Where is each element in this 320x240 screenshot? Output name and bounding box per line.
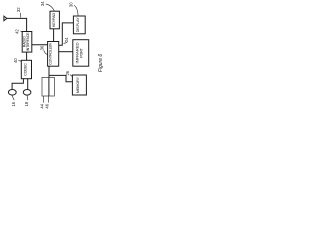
label 30 leader — [74, 5, 78, 15]
label 26 leader — [70, 75, 72, 77]
display box — [73, 16, 85, 34]
label 18 leader — [27, 95, 28, 100]
wire keypad to controller — [53, 29, 55, 42]
svg-text:40: 40 — [13, 58, 18, 63]
svg-text:36: 36 — [39, 45, 44, 50]
label 42 leader — [20, 30, 22, 33]
svg-text:DISPLAY: DISPLAY — [76, 16, 80, 32]
svg-text:34: 34 — [40, 1, 45, 6]
svg-text:32: 32 — [16, 7, 21, 12]
svg-text:Figure 6: Figure 6 — [98, 54, 104, 73]
microphone oval — [8, 90, 16, 96]
label 44 leader — [43, 96, 45, 103]
wire radio to controller — [32, 44, 48, 46]
svg-text:18: 18 — [24, 101, 29, 106]
memory box — [72, 75, 86, 95]
wire codec to microphone — [12, 79, 23, 90]
label 40 leader — [18, 60, 21, 62]
speaker oval — [23, 90, 31, 96]
label 46 leader — [47, 96, 49, 103]
wire branch to memory — [49, 75, 72, 81]
wire controller to infrared port — [59, 51, 73, 53]
wire controller to display — [59, 23, 74, 45]
svg-text:MEMORY: MEMORY — [76, 76, 80, 93]
svg-text:16: 16 — [11, 101, 16, 106]
wire antenna to radio box — [7, 18, 27, 31]
wire controller to two-cell box — [48, 66, 50, 77]
svg-text:PORT: PORT — [79, 48, 83, 58]
two-cell box — [42, 77, 54, 96]
codec box — [21, 60, 31, 78]
wire codec to speaker — [27, 79, 29, 90]
label 32 leader — [19, 13, 22, 18]
svg-text:42: 42 — [15, 29, 20, 34]
label 16 leader — [12, 95, 14, 100]
svg-text:KEYPAD: KEYPAD — [52, 12, 56, 27]
controller box — [48, 42, 59, 67]
svg-text:24: 24 — [64, 37, 69, 42]
svg-text:CONTROLLER: CONTROLLER — [49, 43, 53, 65]
infrared port box — [73, 40, 89, 66]
svg-text:CODEC: CODEC — [24, 63, 28, 76]
divider of two-cell box — [48, 77, 50, 96]
radio interface box — [22, 32, 32, 53]
keypad box — [50, 11, 59, 29]
wire radio to codec — [26, 52, 28, 60]
svg-text:INTERFACE: INTERFACE — [26, 32, 30, 51]
svg-text:30: 30 — [68, 2, 73, 7]
svg-text:26: 26 — [65, 70, 70, 75]
antenna — [4, 16, 7, 21]
label 36 leader — [44, 50, 48, 54]
svg-text:46: 46 — [44, 103, 49, 108]
label 34 leader — [46, 4, 55, 11]
label 24 leader — [64, 42, 68, 43]
